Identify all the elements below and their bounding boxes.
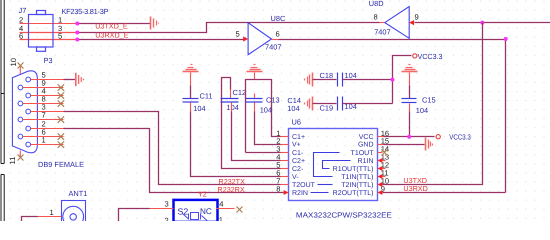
- svg-text:7407: 7407: [265, 43, 281, 52]
- svg-text:7: 7: [42, 111, 46, 120]
- svg-text:C2+: C2+: [292, 158, 305, 165]
- U6 pin12 arrow: [378, 166, 383, 171]
- svg-text:3: 3: [165, 200, 169, 209]
- power port VCC3.3 top: [413, 54, 417, 58]
- svg-text:C19: C19: [320, 104, 334, 113]
- svg-text:1: 1: [42, 136, 46, 145]
- junction dot corner: [504, 37, 508, 41]
- P3 pin stubs: [23, 80, 64, 145]
- wire P3 pin3 to R232TX (U6 pin7): [64, 112, 281, 185]
- P3 no-connect X marks: [58, 84, 64, 147]
- svg-text:104: 104: [193, 104, 205, 113]
- U8C input arrow: [243, 36, 248, 41]
- svg-text:S2: S2: [178, 206, 189, 216]
- svg-text:C15: C15: [422, 96, 436, 105]
- ground left of C18 (rotated): [305, 73, 313, 87]
- svg-text:C13: C13: [266, 95, 280, 104]
- C15 lower lead to VCC rail: [409, 104, 411, 112]
- svg-text:C11: C11: [200, 91, 213, 100]
- wire U3RXD row from corner to U6 pin9: [383, 192, 506, 194]
- svg-text:U8D: U8D: [369, 0, 384, 8]
- U6 pin8 input arrow: [284, 190, 289, 195]
- svg-text:8: 8: [374, 13, 378, 22]
- capacitor C19: [338, 97, 343, 111]
- svg-text:R2OUT(TTL): R2OUT(TTL): [333, 189, 374, 197]
- svg-text:U3RXD_E: U3RXD_E: [95, 31, 128, 40]
- U6 left pin stubs: [281, 137, 289, 185]
- svg-text:R2IN: R2IN: [292, 190, 308, 197]
- svg-text:J7: J7: [19, 6, 27, 15]
- svg-text:4: 4: [219, 200, 223, 209]
- connector J7 body: [29, 11, 54, 52]
- svg-text:VCC3.3: VCC3.3: [418, 52, 443, 61]
- svg-text:U3RXD: U3RXD: [403, 184, 427, 193]
- U6 internal link T1OUT to T1IN(TTL): [314, 153, 340, 177]
- U8D input arrow: [409, 20, 414, 25]
- P3 pin5 wire to ground: [64, 79, 76, 81]
- svg-text:VCC: VCC: [359, 134, 374, 141]
- capacitor C12: [221, 99, 239, 103]
- svg-text:1: 1: [58, 15, 62, 24]
- wire J7 row3 to U8C input: [20, 39, 244, 41]
- P3 pin numbers: [42, 71, 46, 145]
- ground above C11: [183, 65, 199, 72]
- ground (sideways) on U3TXD_E: [151, 17, 159, 30]
- IC U6 MAX3232 body: [289, 129, 378, 201]
- capacitor C15: [402, 99, 417, 103]
- svg-text:KF235-3.81-3P: KF235-3.81-3P: [62, 7, 109, 16]
- wire C14 to C19: [313, 103, 337, 105]
- C13 lower lead to U6 pin2: [254, 103, 256, 112]
- svg-text:C1-: C1-: [292, 150, 304, 157]
- svg-text:1: 1: [50, 208, 54, 217]
- svg-text:ANT1: ANT1: [69, 189, 88, 198]
- svg-text:MAX3232CPW/SP3232EE: MAX3232CPW/SP3232EE: [296, 210, 392, 219]
- svg-text:2: 2: [19, 15, 23, 24]
- S2 internal symbol: [183, 213, 208, 222]
- svg-text:104: 104: [260, 105, 272, 114]
- svg-text:T2IN(TTL): T2IN(TTL): [341, 181, 373, 189]
- capacitor C11: [183, 99, 199, 103]
- svg-text:C1+: C1+: [292, 134, 305, 141]
- U6 internal link R1IN to R1OUT(TTL): [323, 161, 351, 169]
- ground above C13 rail: [247, 65, 263, 72]
- svg-text:T1OUT: T1OUT: [351, 150, 375, 157]
- wire J7 row2 U3RXD_E to U8D: [20, 23, 380, 33]
- svg-text:C18: C18: [320, 71, 334, 80]
- svg-text:5: 5: [236, 30, 240, 39]
- svg-text:6: 6: [276, 30, 280, 39]
- U6 pin13 arrow: [378, 158, 383, 163]
- connector P3 DB9 body: [12, 71, 37, 153]
- S2 pin3 wire: [150, 208, 174, 210]
- wire vertical x=482.3 down to U3TXD row: [383, 23, 483, 185]
- svg-text:U6: U6: [292, 117, 301, 126]
- svg-text:9: 9: [415, 13, 419, 22]
- svg-text:VCC3.3: VCC3.3: [449, 133, 471, 142]
- C12 bridge wire to U6 pin5: [230, 90, 232, 99]
- ground (sideways) at P3 pin5: [76, 73, 84, 86]
- svg-text:R1IN: R1IN: [358, 158, 374, 165]
- junction dot C18 row: [391, 78, 395, 82]
- U6 pin9 arrow: [378, 190, 383, 195]
- svg-text:V+: V+: [292, 142, 301, 149]
- buffer U8D 7407: [385, 7, 409, 39]
- svg-text:8: 8: [276, 185, 280, 194]
- junction dot top right: [480, 21, 484, 25]
- svg-text:104: 104: [416, 106, 428, 115]
- svg-text:U3TXD_E: U3TXD_E: [95, 22, 128, 31]
- C12 lower lead to U6 pin4: [231, 103, 233, 112]
- U6 left pin names: [292, 134, 316, 197]
- svg-text:11: 11: [8, 157, 17, 165]
- sheet border left: [1, 0, 4, 221]
- switch S2 box: [174, 200, 218, 222]
- U6 pin11 arrow: [378, 174, 383, 179]
- svg-text:5: 5: [58, 31, 62, 40]
- connector J7 wires row1 U3TXD_E: [20, 23, 151, 25]
- svg-text:104: 104: [227, 103, 239, 112]
- svg-text:NC: NC: [200, 207, 212, 216]
- wire C19 to vertical: [343, 103, 393, 105]
- U6 right pin numbers: [381, 129, 389, 194]
- U6 pin10 arrow: [378, 182, 383, 187]
- U6 internal link R2IN to R2OUT(TTL): [311, 192, 329, 194]
- U8D input wire to right edge: [415, 22, 550, 24]
- svg-text:P3: P3: [44, 56, 53, 65]
- U8C output wire to right corner x=505.7: [272, 40, 506, 193]
- U8D output stub: [380, 22, 385, 24]
- wire C18 left: [313, 79, 337, 81]
- svg-text:2: 2: [165, 216, 169, 221]
- ground above C15: [402, 65, 418, 72]
- junction dots J7: [75, 22, 79, 42]
- P3 pin circles: [18, 77, 31, 147]
- svg-text:R1OUT(TTL): R1OUT(TTL): [333, 165, 374, 173]
- rail above C13 to pins 1 and 3: [246, 80, 281, 153]
- capacitor C13: [246, 99, 263, 103]
- junction dot pin16: [407, 135, 411, 139]
- svg-text:C2-: C2-: [292, 166, 304, 173]
- ground (sideways) at U6 pin15: [426, 138, 433, 151]
- svg-text:V-: V-: [292, 174, 299, 181]
- wire C18 to vertical and up to VCC3.3: [343, 56, 412, 80]
- C11 lower lead to U6 pin6: [190, 103, 192, 112]
- svg-text:R232RX: R232RX: [218, 185, 245, 194]
- U6 pin15 GND wire: [378, 144, 384, 146]
- power port VCC3.3 right: [436, 135, 440, 139]
- svg-text:GND: GND: [358, 142, 374, 149]
- U6 pin16 VCC wire: [378, 136, 384, 138]
- svg-text:Y2: Y2: [198, 190, 207, 199]
- U6 left pin numbers: [276, 129, 280, 194]
- U6 internal link T2OUT to T2IN(TTL): [318, 184, 333, 186]
- S2 pin4 wire with X: [217, 208, 235, 210]
- svg-text:T1IN(TTL): T1IN(TTL): [341, 173, 373, 181]
- svg-text:T2OUT: T2OUT: [292, 182, 316, 189]
- svg-text:U8C: U8C: [271, 14, 286, 23]
- buffer U8C 7407: [248, 23, 271, 55]
- wire P3 pin2 to R232RX (U6 pin8): [64, 129, 284, 193]
- svg-text:C12: C12: [233, 88, 247, 97]
- svg-text:7407: 7407: [374, 28, 390, 37]
- svg-text:6: 6: [19, 31, 23, 40]
- capacitor C18: [338, 73, 343, 87]
- svg-text:104: 104: [287, 104, 299, 113]
- C11 stem from ground: [190, 73, 192, 86]
- U6 right pin names: [333, 134, 375, 197]
- U6 pin14 stub with X: [378, 152, 383, 154]
- svg-text:10: 10: [9, 58, 18, 66]
- svg-text:1: 1: [219, 215, 223, 221]
- svg-text:DB9 FEMALE: DB9 FEMALE: [38, 160, 84, 169]
